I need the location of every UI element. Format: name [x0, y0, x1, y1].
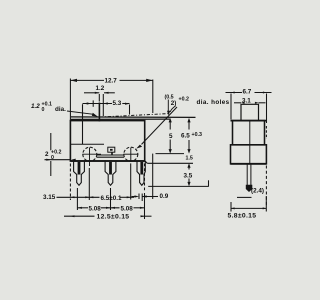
- right view body upper box: [233, 121, 265, 145]
- dim 0.9 pin width: [132, 194, 159, 202]
- bottom dim row3 12.5: [64, 164, 152, 220]
- svg-text:3.15: 3.15: [43, 194, 56, 201]
- svg-text:dia.: dia.: [55, 106, 66, 113]
- svg-text:2): 2): [171, 100, 177, 107]
- terminal right: [137, 161, 145, 185]
- terminal middle: [105, 161, 116, 185]
- svg-text:12.5±0.15: 12.5±0.15: [97, 213, 130, 220]
- right view top thick line: [231, 120, 267, 122]
- bottom dim row1 3.15 and 6.5: [57, 163, 135, 200]
- right view centerline: [249, 121, 251, 164]
- svg-text:3.1: 3.1: [242, 98, 251, 105]
- lever free position dash-dot line: [100, 114, 169, 117]
- dim 12.7 top: [70, 79, 152, 121]
- terminal left: [74, 161, 85, 185]
- right view seam: [233, 144, 265, 146]
- hinge bracket: [82, 104, 84, 144]
- right view body lower box: [231, 145, 267, 164]
- svg-text:5.8±0.15: 5.8±0.15: [228, 213, 257, 220]
- svg-text:6.7: 6.7: [243, 89, 252, 96]
- svg-text:2: 2: [45, 151, 49, 158]
- svg-text:5.08: 5.08: [89, 206, 102, 213]
- right view hidden lever dash: [265, 126, 267, 139]
- dim column 6.5 / 1.5 / 3.5: [187, 118, 190, 186]
- mounting hole right: [123, 147, 138, 161]
- svg-text:+0.3: +0.3: [192, 132, 203, 138]
- svg-text:1.2: 1.2: [96, 85, 105, 92]
- dim 5.3: [83, 100, 130, 114]
- dim 5 vertical: [169, 118, 172, 154]
- svg-text:5.08: 5.08: [121, 206, 134, 213]
- leader curve from 2 dia label: [170, 106, 175, 112]
- movable contact marker rect: [108, 147, 115, 152]
- svg-text:12.7: 12.7: [105, 78, 118, 85]
- leader diagonal to right hole: [136, 107, 177, 149]
- right view terminal pin: [246, 165, 253, 193]
- svg-text:0: 0: [51, 155, 54, 161]
- right ext line hole centerline: [156, 153, 185, 155]
- right ext line tab bottom: [147, 162, 193, 164]
- svg-text:3.5: 3.5: [184, 172, 193, 179]
- body seam line: [70, 143, 104, 145]
- svg-text:1.2: 1.2: [31, 103, 40, 110]
- right view bottom thick line: [231, 163, 267, 165]
- dim 2+0.2 left: [45, 133, 76, 176]
- contact leaf lines between holes: [97, 152, 125, 157]
- leader from 1.2 dia label: [67, 111, 98, 117]
- mounting hole left: [82, 147, 101, 166]
- right view dim 3.1 plunger: [234, 102, 266, 104]
- svg-text:(2.4): (2.4): [251, 188, 264, 195]
- right view dim 6.7: [226, 92, 272, 124]
- svg-text:5: 5: [169, 133, 173, 140]
- bottom dim row2 5.08 5.08: [77, 188, 144, 210]
- svg-text:1.5: 1.5: [186, 156, 193, 162]
- right view plunger: [241, 104, 259, 120]
- svg-text:0.9: 0.9: [160, 193, 169, 200]
- svg-text:5.3: 5.3: [113, 100, 122, 107]
- leader 0.5 vertical with arrow: [167, 100, 170, 116]
- svg-text:dia. holes: dia. holes: [197, 99, 230, 106]
- dim 1.2 plunger: [84, 92, 115, 116]
- right view dim 5.8: [231, 196, 266, 212]
- svg-text:6.5: 6.5: [181, 133, 190, 140]
- svg-text:+0.2: +0.2: [179, 97, 190, 103]
- svg-text:0: 0: [42, 107, 45, 113]
- plunger thick bar: [99, 103, 101, 122]
- lever solid strip: [71, 117, 196, 120]
- body outline: [70, 121, 144, 161]
- right ext line terminal tip: [148, 180, 209, 186]
- right view right dashed extension: [265, 166, 267, 207]
- side tab verticals: [145, 154, 153, 199]
- svg-text:6.5±0.1: 6.5±0.1: [101, 195, 122, 202]
- right view pin tip marker line: [237, 196, 252, 198]
